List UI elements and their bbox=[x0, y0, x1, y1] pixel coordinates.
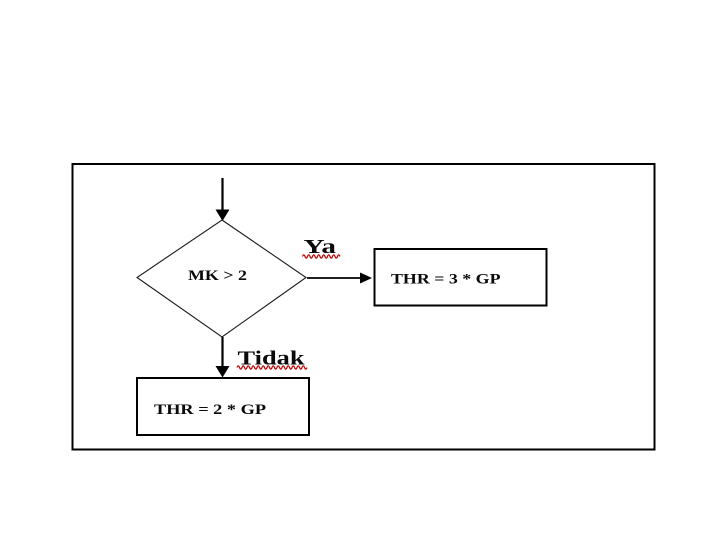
spellcheck squiggle under Tidak bbox=[237, 366, 307, 369]
spellcheck squiggle under Ya bbox=[303, 255, 341, 258]
Ya branch arrowhead bbox=[360, 273, 372, 284]
entry arrowhead bbox=[216, 210, 230, 222]
decision diamond MK > 2 bbox=[137, 220, 306, 337]
process box THR = 2 * GP bbox=[137, 378, 309, 435]
Tidak branch arrow shaft bbox=[221, 337, 223, 367]
svg-text:THR = 3 * GP: THR = 3 * GP bbox=[391, 272, 501, 288]
svg-text:MK > 2: MK > 2 bbox=[188, 268, 247, 284]
svg-text:THR = 2 * GP: THR = 2 * GP bbox=[154, 402, 266, 418]
process box THR = 3 * GP bbox=[375, 249, 547, 306]
entry arrow shaft bbox=[221, 178, 223, 211]
Tidak branch arrowhead bbox=[216, 366, 230, 378]
Ya branch arrow shaft bbox=[307, 277, 361, 279]
